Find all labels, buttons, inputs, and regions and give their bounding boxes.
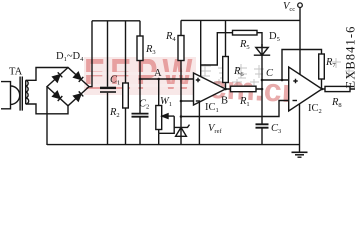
ground symbol — [292, 151, 308, 153]
Vref line to IC2 - input — [181, 101, 289, 117]
wire bridge plus corner up to DC bus — [89, 21, 92, 87]
node A line to IC1 + input — [140, 78, 194, 80]
DC bus (left top rail) — [92, 20, 140, 22]
wire bridge minus corner to ground rail — [46, 87, 48, 145]
wire R4 node to IC1 - input — [181, 100, 194, 102]
svg-text:C: C — [266, 68, 274, 79]
diode D4 (bottom-right edge) — [74, 91, 84, 101]
diode D5 — [256, 48, 268, 56]
capacitor C1 (electrolytic) — [107, 21, 109, 145]
wire node C to IC2 + input — [262, 79, 289, 81]
resistor R2 — [125, 21, 127, 145]
svg-text:Vcc: Vcc — [283, 1, 295, 13]
transformer core — [20, 77, 22, 111]
transformer TA primary winding — [1, 82, 11, 109]
svg-text:C1: C1 — [110, 75, 120, 87]
svg-text:R2: R2 — [109, 107, 120, 119]
positive feedback line to R7 — [282, 50, 322, 81]
svg-text:D1~D4: D1~D4 — [56, 51, 84, 63]
wire secondary top to bridge AC top — [26, 68, 68, 81]
svg-text:IC1: IC1 — [205, 102, 219, 114]
resistor R4 — [180, 20, 182, 116]
potentiometer W1 — [158, 79, 160, 133]
gray CJK-like watermark glyphs — [200, 58, 354, 88]
diode D2 (top-right edge) — [74, 72, 84, 82]
svg-text:B: B — [221, 96, 228, 107]
diode D1 (top-left edge) — [53, 72, 63, 82]
svg-text:R3: R3 — [145, 44, 156, 56]
svg-text:D5: D5 — [269, 31, 280, 43]
svg-text:IC2: IC2 — [308, 103, 322, 115]
Vcc rail (right top) — [181, 19, 300, 21]
svg-text:C3: C3 — [271, 123, 281, 135]
op-amp IC2 — [289, 67, 322, 111]
resistor R6 (pull-up on IC1 output) — [225, 20, 227, 89]
transformer TA secondary winding — [25, 80, 27, 104]
ground rail — [47, 144, 300, 146]
Vcc feed to R5 and IC1 power — [200, 20, 202, 76]
svg-text:R7: R7 — [325, 57, 336, 69]
bridge rectifier diamond D1-D4 — [47, 68, 89, 106]
zener diode (reference) — [180, 117, 182, 146]
resistor R7 — [319, 54, 325, 79]
svg-text:Vref: Vref — [208, 123, 222, 135]
IC2 ground stub — [299, 104, 301, 152]
svg-text:TA: TA — [9, 67, 23, 78]
svg-text:A: A — [154, 68, 162, 79]
resistor R5 — [233, 30, 258, 35]
IC1 ground stub — [198, 102, 200, 145]
svg-text:R4: R4 — [165, 31, 176, 43]
capacitor C3 — [256, 123, 269, 125]
capacitor C2 — [139, 117, 141, 145]
op-amp IC1 — [194, 73, 226, 105]
diode D3 (bottom-left edge) — [53, 91, 63, 101]
wire secondary bottom to bridge AC bottom — [26, 104, 68, 114]
svg-text:C2: C2 — [139, 99, 149, 111]
svg-text:W1: W1 — [160, 96, 172, 108]
node C vertical wire — [261, 44, 263, 124]
watermark red .com.cn — [199, 73, 302, 104]
resistor R3 — [139, 21, 141, 113]
Vcc terminal — [298, 3, 303, 8]
node B / resistor R1 — [226, 88, 263, 90]
watermark red EEPW — [84, 57, 196, 95]
svg-text:EXB841-6: EXB841-6 — [344, 26, 355, 89]
svg-text:R8: R8 — [331, 97, 342, 109]
resistor R8 (output) — [322, 88, 355, 90]
svg-text:R1: R1 — [239, 96, 250, 108]
node A junction — [157, 78, 160, 81]
svg-text:R5: R5 — [239, 39, 250, 51]
